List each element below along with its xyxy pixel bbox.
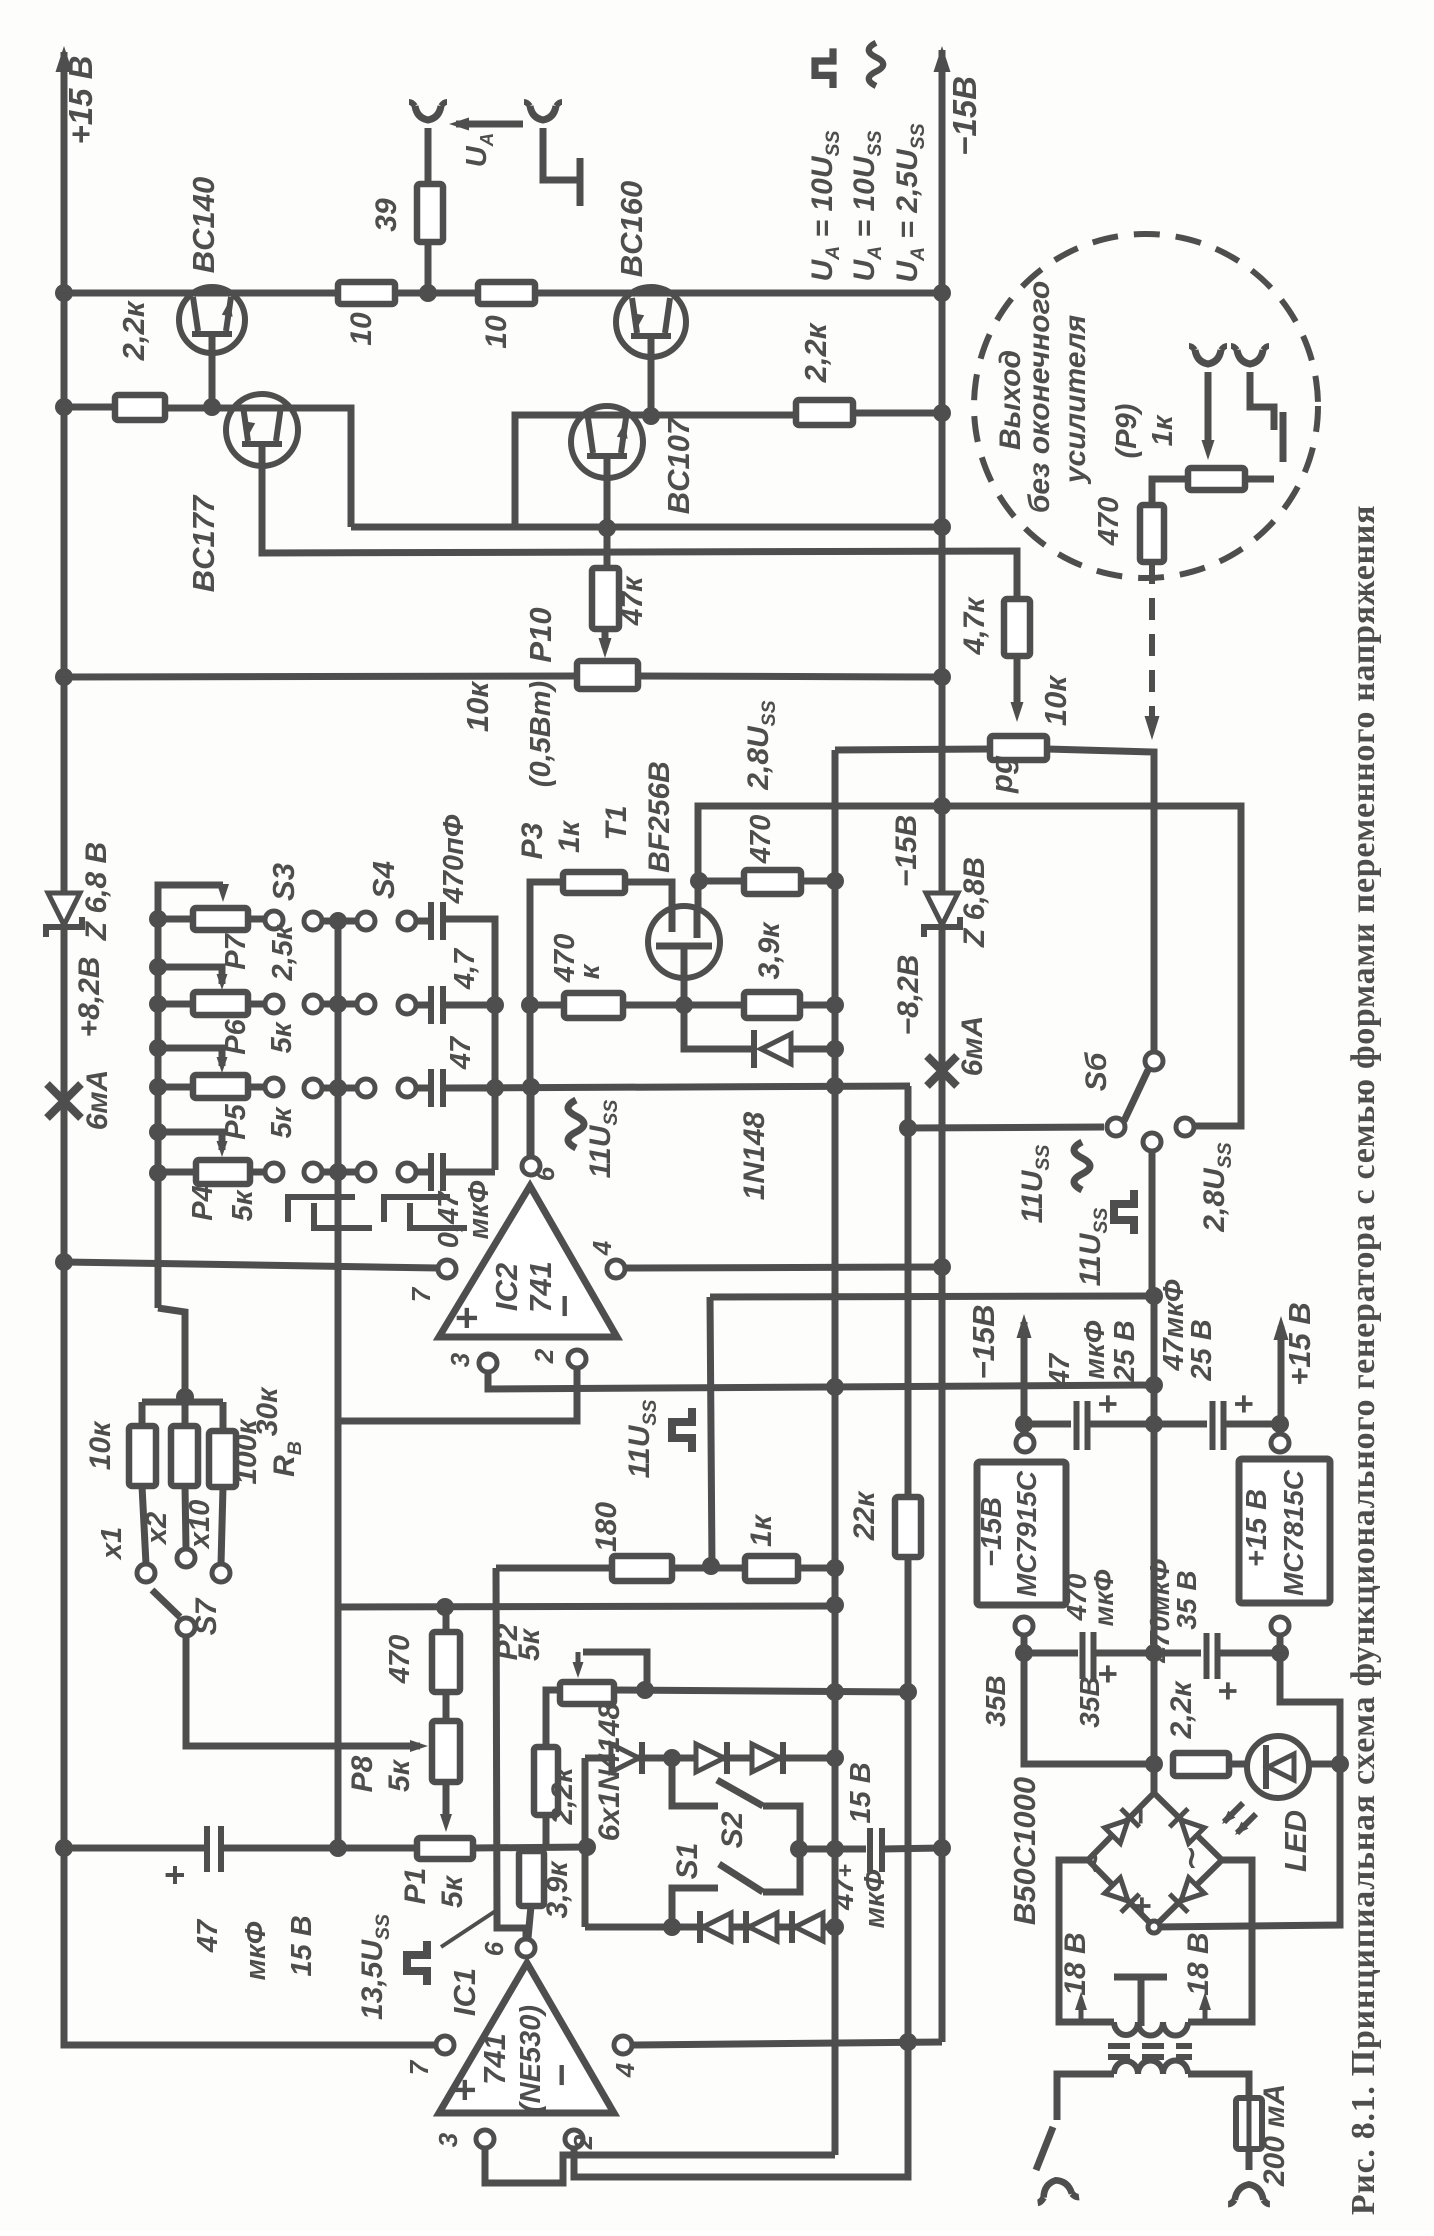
capacitor 47uF25V left [1077,1401,1088,1450]
potentiometer P2 body [560,1682,614,1704]
svg-text:6мА: 6мА [956,1016,989,1077]
wire cap lead y1088 [415,1085,430,1092]
junction x835 y1849 [826,1840,844,1858]
svg-text:47: 47 [1044,1352,1076,1387]
wire fuse to plug [1246,2149,1253,2170]
svg-text:Р4: Р4 [187,1185,219,1220]
wire cap3 out [443,1085,495,1092]
svg-text:18 B: 18 B [1059,1932,1092,1995]
wire -15V right rail [939,50,946,2042]
wire bus y407 b + drop to y527 [165,408,351,527]
wire 1N148 to x835 [791,1046,835,1053]
wire diode top row [585,1755,835,1762]
wire S3 stub y921 [321,918,358,925]
svg-text:(NE530): (NE530) [515,2005,547,2113]
switch S6 common contact [1107,1118,1125,1136]
wire cap bus y1424 c [1224,1421,1280,1428]
wire cap bus y1424 b [1088,1421,1207,1428]
regulator MC7915C box [977,1462,1066,1605]
wire bus y806 [698,806,1241,1126]
pin MC7915C gnd [1015,1617,1033,1635]
wire bus y1005 b [623,1002,744,1009]
svg-text:+15 B: +15 B [62,56,99,145]
svg-text:35 B: 35 B [1171,1570,1202,1629]
diode D5 1N4148 [749,1913,777,1941]
wire P8 bottom lead [443,1782,450,1820]
switch S2 lever [717,1780,763,1806]
transistor T1 BF256B body [648,906,720,978]
svg-text:+: + [1225,1394,1263,1414]
junction reg2/gnd bus [1271,1644,1289,1662]
LED symbol [1263,1745,1269,1789]
resistor 100k range [209,1431,236,1487]
junction right rail y1267 [933,1258,951,1276]
junction x908 y1128 [899,1119,917,1137]
transistor BC177 body [226,394,298,466]
switch S1 lever [719,1864,763,1892]
switch S6 contact 3 [1176,1118,1194,1136]
wire cap to rail [883,1848,942,1849]
wire x908 upper [905,1128,912,1497]
svg-text:+: + [1089,1394,1127,1414]
switch S3 contact y1088 [304,1079,322,1097]
resistor 30k range [171,1426,198,1486]
wire P4 right [250,1169,266,1176]
wire pot bank jog [158,1308,185,1396]
contact x2 [177,1549,195,1567]
svg-text:+15 B: +15 B [1241,1489,1273,1567]
wire +15 bus to pin7 [64,1262,439,1268]
svg-text:Р10: Р10 [523,607,558,662]
ground tab bar J2 [577,158,584,206]
svg-text:470: 470 [745,815,777,864]
svg-text:47: 47 [445,1035,477,1070]
junction x1154 y1764 [1145,1755,1163,1773]
junction S1 tap [663,1918,681,1936]
svg-text:4: 4 [610,2062,640,2078]
svg-text:10: 10 [480,315,513,349]
svg-text:LED: LED [1278,1810,1313,1872]
wire P3 left lead [530,882,563,1163]
wire 470top left [698,878,744,885]
svg-text:3: 3 [433,2132,463,2147]
pin MC7815C in [1271,1434,1289,1452]
svg-text:2,2к: 2,2к [546,1766,579,1826]
wire x908 lower [905,1557,912,2042]
bridge diode BR [1170,1876,1206,1912]
wire S1 common [763,1853,800,1892]
contact P6 out [265,995,283,1013]
diode D6 1N4148 [795,1913,823,1941]
junction S1S2 common [790,1840,808,1858]
svg-text:BC177: BC177 [186,494,221,592]
wire P4 left [158,1169,196,1176]
svg-text:BC140: BC140 [186,177,221,274]
wire reg2 gnd lead [1280,1634,1340,1758]
junction x338 y1848 [329,1839,347,1857]
wire +15V out stem [1278,1326,1285,1424]
svg-text:470: 470 [384,1635,416,1684]
junction left rail y1848 [55,1839,73,1857]
svg-text:5к: 5к [383,1758,416,1792]
svg-text:10к: 10к [84,1420,117,1470]
junction x908 y1692 [899,1683,917,1701]
arrowhead dashed onto P9 node [1145,716,1160,740]
potentiometer P5 body [193,1075,248,1098]
junction x835 y881 [826,872,844,890]
regulator MC7815C box [1239,1459,1330,1603]
wire S7 to P8 wiper [186,1636,420,1746]
junction -15V/cap [1015,1415,1033,1433]
resistor 1k osc [745,1556,798,1581]
pin 7 IC2 [438,1260,456,1278]
svg-text:BC107: BC107 [661,416,696,514]
svg-text:25 B: 25 B [1109,1320,1141,1382]
contact P5 out [265,1078,283,1096]
capacitor row contact y1088 [398,1079,416,1097]
resistor 47k [592,568,619,629]
wire 470 top lead [443,1607,450,1632]
svg-text:мкФ: мкФ [240,1921,272,1980]
svg-text:1к: 1к [553,819,586,853]
junction +15V/reg2 [1271,1415,1289,1433]
wire 10k to x1 [142,1486,146,1564]
transformer secondary winding [1114,2022,1188,2036]
wire bridge L to sec [1059,1860,1114,2022]
measuring point X left rail [47,1084,81,1118]
emitter arrow BC140 [222,300,233,317]
bridge diode BL [1103,1876,1139,1912]
resistor 470 in circle [1140,505,1164,562]
wire S1 throw stub [672,1888,718,1927]
junction x158 y1048 [149,1039,167,1057]
op-amp IC1 triangle [439,1963,614,2113]
svg-text:470: 470 [1093,497,1125,546]
resistor P3 1k body [563,872,625,893]
arrowhead -15V rail [934,46,951,72]
arrowhead P6 wiper [217,974,228,990]
junction x835 y1568 [826,1559,844,1577]
resistor 10 right [478,282,535,304]
wire P6 right [248,1001,266,1008]
svg-text:BC160: BC160 [614,181,649,278]
ground tab bar J4 [1280,412,1287,462]
wire RB rail [142,1399,223,1406]
zener diode Z6,8V right rail [926,893,958,925]
wire -15V out [1021,1322,1028,1436]
svg-text:−15B: −15B [946,76,983,156]
transistor BC160 internals [631,298,671,336]
wire feedback bus x835 [832,750,839,2155]
resistor 3,9k mid [744,992,800,1018]
diode D4 1N4148 [703,1913,731,1941]
junction x530 y1005 [521,996,539,1014]
pin 6 IC2 [522,1157,540,1175]
wire P2 right lead [614,1690,908,1692]
output jack J1 [415,106,441,120]
wire 18V arrow L [1079,2000,1084,2022]
wire 18V arrow R [1203,2000,1208,2022]
wire P9opt left to 470 [1152,479,1188,505]
capacitor plates y1172 [431,1153,443,1191]
potentiometer (P9) 1k body [1188,468,1245,490]
switch S7 common [177,1618,195,1636]
transformer core [1108,2046,1192,2057]
svg-text:7: 7 [406,1286,436,1302]
square glyph S6 [1114,1190,1134,1234]
svg-text:S3: S3 [266,863,301,901]
zener diode Z6,8V left rail [48,893,80,925]
resistor 10k range [129,1426,156,1486]
transformer center tap [1114,1977,1167,2026]
emitter arrow BC160 [633,313,644,330]
potentiometer P7 body [193,908,248,930]
wire cap lead y921 [415,918,430,925]
wire pot bank bus x158 [158,885,223,1308]
junction 470/bus1607 [436,1598,454,1616]
wire 2,2k bottom [543,1815,550,1848]
mains plug prong left [1035,2177,1079,2202]
LED arrowhead 2 [1235,1822,1248,1835]
wire 47k to P10 wiper [602,629,609,648]
arrowhead 47k wiper [599,638,612,658]
resistor 470 top [744,870,801,894]
svg-text:5к: 5к [513,1627,546,1661]
junction x835 y1605 [826,1596,844,1614]
junction S2 tap [663,1749,681,1767]
resistor 470k [564,993,623,1018]
wire switch bus x338 [335,920,342,1607]
diode 1N148 [761,1034,791,1064]
wire 3,9k bottom to pin6 [528,1906,531,1938]
capacitor 47uF 15V plates [207,1826,221,1872]
diode D1 1N4148 [611,1744,639,1772]
svg-text:+: + [445,1306,489,1329]
bridge diode TR [1170,1809,1206,1845]
junction LED right [1331,1755,1349,1773]
junction x1154 y1424 [1145,1415,1163,1433]
pin 4 IC2 [607,1260,625,1278]
wire P5 left [158,1084,193,1091]
svg-text:Т1: Т1 [600,805,633,840]
svg-text:(0,5Вт): (0,5Вт) [525,681,557,787]
LED body [1247,1736,1309,1798]
wire P6 wiper feed [158,967,222,984]
capacitor plates y921 [431,902,443,940]
bridge diode TL [1103,1809,1139,1845]
svg-text:2,2к: 2,2к [1165,1680,1198,1740]
contact P4 out [265,1163,283,1181]
emitter arrow BC107 [617,422,628,439]
dashed circle output w/o amplifier [974,234,1318,578]
switch S4 left contact y1172 [357,1163,375,1181]
wire bridge R to sec [1188,1860,1252,2022]
junction diode bank left [578,1838,596,1856]
junction right rail y1848 [933,1839,951,1857]
junction right rail y677 [933,668,951,686]
output jack J3 [1195,350,1221,364]
square glyph mid [672,1408,692,1452]
wire IC1 pin3 loop [485,2147,835,2183]
wire bus y1005 a [530,1002,564,1009]
junction node 39/bus [419,284,437,302]
resistor 4,7k [1004,599,1030,656]
pin 3 IC2 [479,1354,497,1372]
pin 4 IC1 [614,2036,632,2054]
wire J3 stem [1205,372,1212,442]
wire IC1 pin2 loop [574,2042,908,2177]
junction left rail y677 [55,668,73,686]
wire bus y676 left [64,676,577,677]
svg-text:6: 6 [479,1941,509,1956]
resistor 2,2k right [796,400,853,425]
pin 2 IC2 [568,1350,586,1368]
svg-text:39: 39 [370,198,403,232]
svg-text:S4: S4 [366,861,401,899]
wire +15V left rail [64,52,437,2045]
svg-text:рg: рg [984,755,1019,794]
capacitor 470uF left [1083,1632,1094,1679]
transistor BC177 internals [242,406,282,444]
pin MC7915C in [1016,1434,1034,1452]
junction BC160 base node [642,407,660,425]
wire gnd bus y1653 a [1024,1650,1078,1657]
wire UA arrow line [456,121,523,128]
potentiometer P4 body [196,1160,250,1184]
capacitor row contact y921 [398,912,416,930]
wire bus y1128 [908,1086,1104,1128]
wire P7 right [248,916,266,923]
mains plug prong right [1228,2184,1270,2204]
junction x835 y1758 [826,1749,844,1767]
wire S4bus down to y1848 [335,1607,342,1848]
wire P2 wiper stub [576,1652,581,1666]
arrowhead P5 wiper [217,1057,228,1073]
wire BC140 base lead [209,337,216,407]
wire cap bus y1424 a [1024,1421,1071,1428]
wire gnd bus y1653 b [1094,1650,1201,1657]
svg-text:к: к [574,963,606,979]
wire jack1 to 39 [425,128,432,184]
wire 470 to P8 [443,1692,450,1721]
svg-text:4: 4 [587,1240,617,1256]
svg-text:−15B: −15B [890,815,923,888]
LED arrowhead 1 [1222,1811,1235,1824]
callout line 13,5Uss [441,1910,497,1947]
pin 6 IC1 [517,1939,535,1957]
wire 39 to bus [425,242,432,293]
svg-text:100к: 100к [230,1418,263,1485]
wire bus y1607 [338,1606,835,1607]
svg-text:−: − [1122,1805,1160,1825]
wire P9opt right lead [1245,476,1274,483]
svg-text:5к: 5к [227,1189,259,1221]
svg-text:IC1: IC1 [447,1968,482,2016]
wire cap4 out [443,1169,495,1176]
wire primary left [1057,2074,1114,2120]
svg-text:3: 3 [445,1352,475,1367]
LED light arrows [1224,1803,1256,1833]
wire S3 stub y1004 [321,1001,358,1008]
wire S1S2 to x835 [799,1846,835,1853]
arrowhead P2 wiper [573,1662,584,1678]
switch S4 left contact y921 [357,912,375,930]
svg-text:мкФ: мкФ [1079,1320,1111,1379]
wire bus y1848 a [64,1845,207,1852]
transistor BC140 internals [192,297,232,334]
wire 30k to x2 [185,1486,186,1548]
svg-text:6мА: 6мА [81,1070,114,1131]
resistor 22k [895,1497,921,1557]
wire 180 to 1k [672,1565,745,1572]
wire middle vert x1154 [1151,1296,1158,1793]
junction x1154 y1296 [1145,1287,1163,1305]
resistor 2,2k osc [534,1747,558,1815]
svg-text:10к: 10к [460,681,495,732]
wire diode bank left bus [582,1758,589,1927]
wire reg1 gnd lead [1024,1634,1146,1764]
wire P5 wiper feed [158,1048,222,1066]
junction x338 y1004 [329,995,347,1013]
svg-text:35B: 35B [1074,1676,1105,1727]
diode 1N148 bar [751,1030,757,1068]
resistor 2,2k left [115,395,165,420]
junction x1154 y1653 [1145,1644,1163,1662]
junction x338 y1088 [329,1079,347,1097]
wire pin4 to rail [624,1267,942,1268]
junction x1154 y1385 [1145,1376,1163,1394]
capacitor 47uF diode bank [870,1828,882,1872]
arrowhead P9 wiper [1011,702,1024,722]
junction x338 y921 [329,912,347,930]
junction P2 right [636,1681,654,1699]
svg-text:МС7815С: МС7815С [1278,1469,1309,1596]
sine glyph IC2 out [568,1100,584,1148]
junction x158 y1173 [149,1164,167,1182]
wire RB drop L [139,1402,146,1426]
diode D2 1N4148 [696,1744,724,1772]
wire bus y749 left [835,749,990,750]
wire pin2 loop [338,1367,577,1421]
arrowhead P4 wiper [217,1141,228,1157]
bridge rectifier diamond [1088,1793,1222,1927]
transistor BC107 internals [587,418,627,456]
output jack J2 [530,106,556,120]
svg-text:10: 10 [345,312,378,346]
wire P3 right to T1 gate [625,882,672,932]
capacitor 47uF25V right [1213,1401,1224,1450]
wire bus y1087 [448,1086,910,1088]
svg-text:усилителя: усилителя [1059,314,1092,485]
svg-text:200 мА: 200 мА [1258,2084,1291,2187]
potentiometer P1 body [417,1838,473,1859]
output jack J4 [1237,350,1263,364]
wire bus y1005 c [800,1002,835,1009]
wire jack2 ground lead [543,128,577,180]
svg-text:180: 180 [590,1502,623,1552]
svg-text:х10: х10 [184,1500,216,1550]
svg-text:(Р9): (Р9) [1111,404,1143,459]
capacitor row contact y1172 [398,1163,416,1181]
junction x835 y1692 [826,1683,844,1701]
wire cap lead y1005 [415,1002,430,1009]
contact x10 [212,1564,230,1582]
svg-text:1N148: 1N148 [738,1111,771,1200]
svg-text:+: + [1209,1681,1247,1701]
transformer primary winding [1114,2060,1188,2074]
switch S3 contact y1172 [304,1163,322,1181]
svg-text:Z 6,8B: Z 6,8B [958,857,991,948]
